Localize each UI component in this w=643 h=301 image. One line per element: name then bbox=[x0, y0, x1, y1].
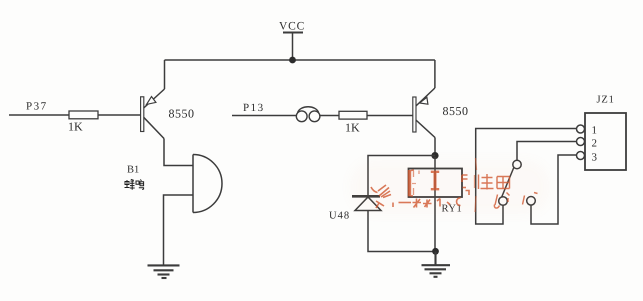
watermark strokes below relay bbox=[399, 198, 461, 208]
watermark overlay bbox=[371, 158, 538, 212]
watermark near contact A bbox=[494, 193, 509, 209]
wire R1 to Q1 base bbox=[98, 114, 141, 116]
watermark I glyph center of relay bbox=[431, 172, 439, 189]
watermark marks right of relay bbox=[462, 175, 469, 195]
node VCC junction bbox=[289, 57, 296, 64]
wire diode to bottom bbox=[368, 211, 436, 252]
contact C circle bbox=[527, 197, 536, 206]
wire R2 to Q2 base bbox=[367, 115, 414, 117]
svg-text:1: 1 bbox=[592, 125, 598, 137]
wire JZ1 pin1 to contact bbox=[476, 129, 577, 225]
watermark streaks on left contact wire bbox=[475, 158, 477, 212]
svg-text:VCC: VCC bbox=[279, 21, 305, 33]
connector JZ1 bbox=[577, 113, 627, 170]
transistor Q1 8550 bbox=[141, 60, 165, 139]
svg-text:8550: 8550 bbox=[169, 107, 195, 121]
watermark strokes near diode bbox=[371, 185, 393, 208]
wire JZ1 pin2 to common contact bbox=[517, 142, 577, 161]
watermark characters right of contacts bbox=[479, 174, 510, 190]
wire JZ1 pin3 to contact bbox=[531, 155, 577, 224]
label 蜂鸣 (drawn as paths, CJK not in Liberation) bbox=[125, 179, 144, 190]
wire buzzer bottom lead to ground bbox=[164, 195, 193, 265]
svg-text:P13: P13 bbox=[243, 102, 265, 114]
buzzer B1 bbox=[193, 155, 222, 213]
ground buzzer bbox=[148, 265, 180, 278]
power VCC symbol bbox=[292, 33, 294, 60]
resistor R1 1K bbox=[69, 111, 98, 119]
svg-text:B1: B1 bbox=[127, 165, 139, 176]
relay coil RY1 bbox=[409, 157, 463, 252]
watermark relay left edge bbox=[408, 170, 411, 196]
wire junction to diode bbox=[368, 156, 435, 197]
switch arm bbox=[502, 168, 514, 198]
svg-text:P37: P37 bbox=[26, 101, 48, 113]
wire P13 input bbox=[232, 115, 296, 117]
ground relay bbox=[422, 252, 451, 277]
contact B common circle bbox=[513, 160, 521, 168]
wire Q1 collector to buzzer bbox=[164, 139, 193, 166]
jumper JP1 bbox=[296, 107, 320, 122]
watermark haze bbox=[350, 160, 550, 214]
wire P37 input bbox=[9, 114, 69, 116]
wire jumper to R2 bbox=[320, 115, 339, 117]
wire top rail VCC bbox=[165, 59, 435, 61]
resistor R2 1K bbox=[339, 111, 367, 119]
transistor Q2 8550 bbox=[413, 60, 435, 138]
node relay bottom junction bbox=[432, 248, 439, 255]
wire Q2 collector to relay bbox=[434, 138, 436, 157]
watermark near contact C bbox=[523, 193, 538, 205]
svg-text:2: 2 bbox=[592, 138, 598, 150]
svg-text:U48: U48 bbox=[329, 211, 350, 222]
contact A circle bbox=[499, 197, 508, 206]
svg-text:1K: 1K bbox=[345, 121, 360, 135]
svg-text:JZ1: JZ1 bbox=[597, 95, 615, 106]
node relay top junction bbox=[431, 152, 438, 159]
svg-text:1K: 1K bbox=[68, 120, 83, 134]
svg-text:3: 3 bbox=[592, 152, 598, 164]
diode U48 bbox=[352, 196, 381, 210]
svg-text:8550: 8550 bbox=[443, 104, 469, 118]
